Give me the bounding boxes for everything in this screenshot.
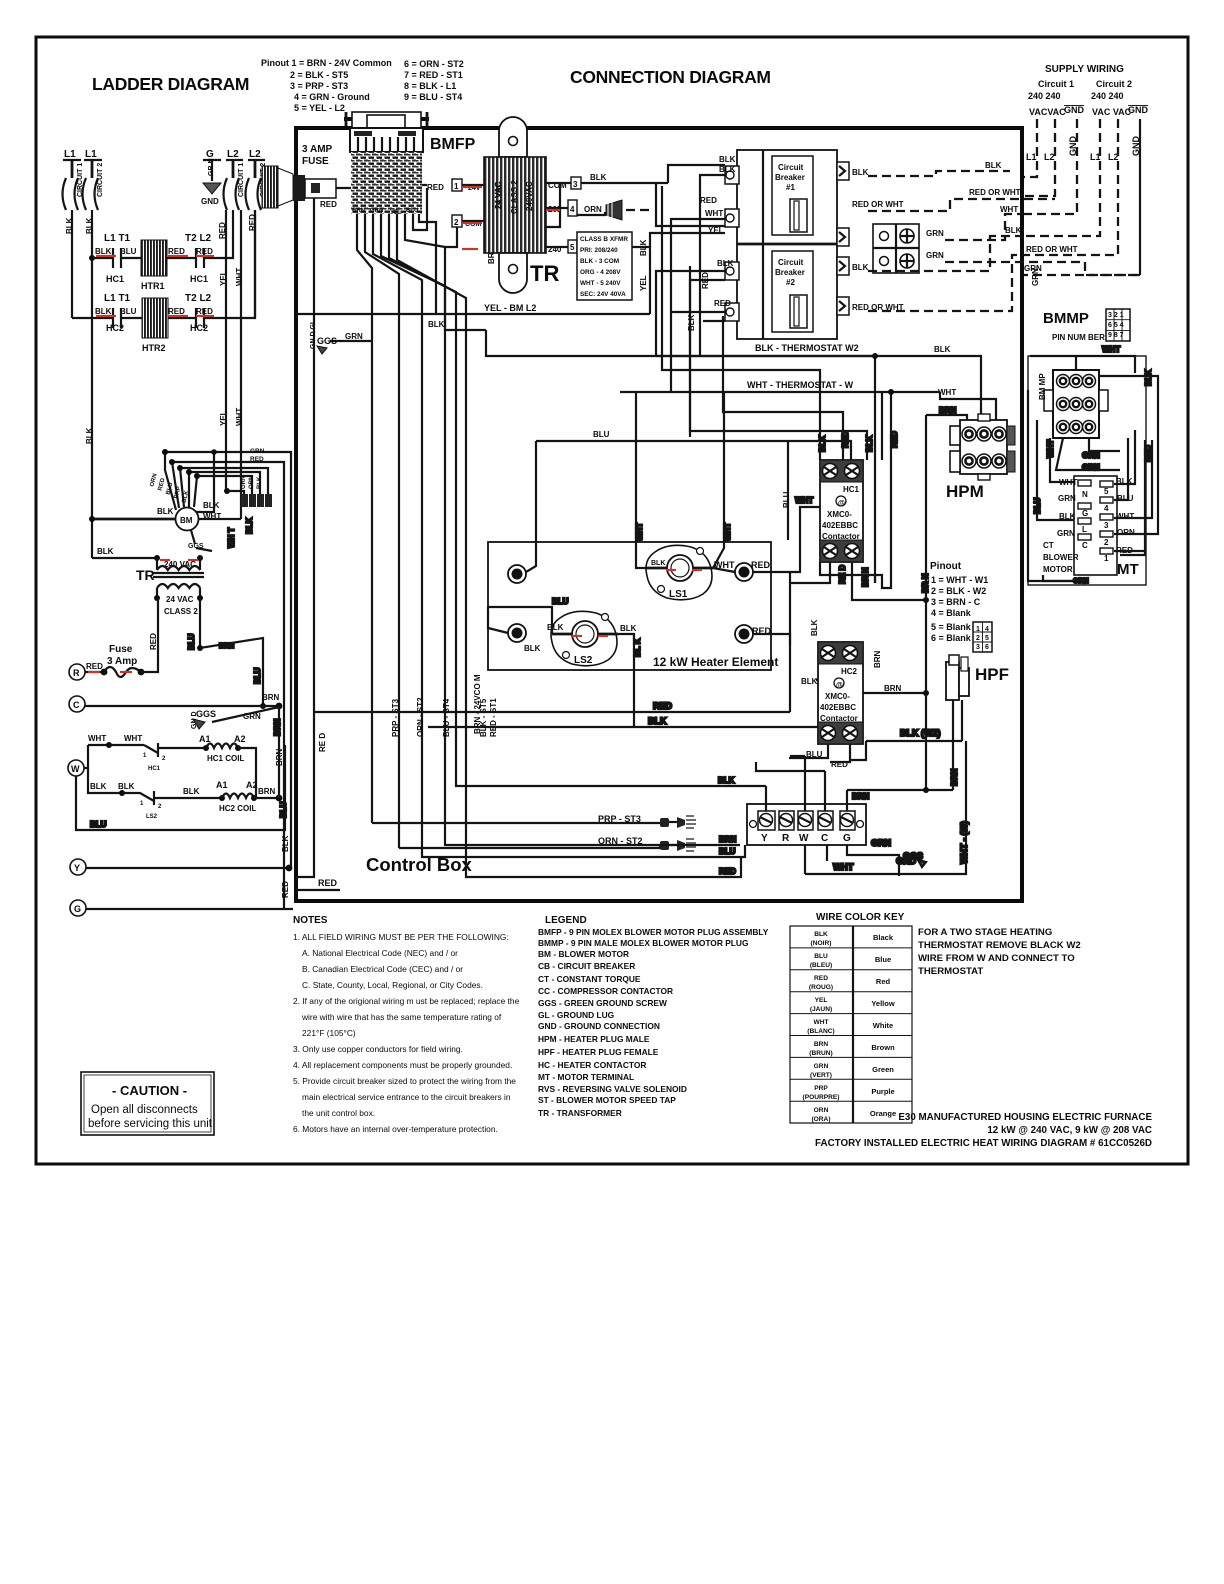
- svg-text:C: C: [821, 833, 828, 844]
- svg-text:BLK: BLK: [281, 835, 290, 852]
- svg-text:BLK: BLK: [620, 624, 637, 633]
- svg-text:HPM: HPM: [946, 482, 984, 501]
- svg-text:YEL: YEL: [815, 997, 828, 1004]
- svg-text:BRN: BRN: [258, 787, 276, 796]
- svg-text:Y: Y: [761, 833, 768, 844]
- svg-text:CC - COMPRESSOR CONTACTOR: CC - COMPRESSOR CONTACTOR: [538, 986, 673, 996]
- breaker CB circuit1 (L1 a): [63, 163, 85, 210]
- svg-text:L1: L1: [1026, 152, 1037, 162]
- circuit breaker #2: [772, 251, 813, 332]
- svg-text:- CAUTION -: - CAUTION -: [112, 1083, 187, 1098]
- svg-text:BRN: BRN: [950, 768, 959, 786]
- dashed: CB1 BLK to supply L1: [852, 161, 1010, 177]
- svg-text:BLK: BLK: [97, 547, 114, 556]
- svg-text:Circuit: Circuit: [778, 258, 804, 267]
- svg-text:WHT: WHT: [235, 408, 244, 426]
- svg-text:RED: RED: [168, 247, 185, 256]
- heater terminal top-right: [735, 560, 771, 581]
- wire BLK to HPM: [656, 356, 981, 414]
- wire L1 drop b: [91, 160, 94, 178]
- svg-text:BR N: BR N: [861, 567, 870, 587]
- svg-text:CLASS 2: CLASS 2: [164, 607, 198, 616]
- svg-text:LS1: LS1: [669, 589, 688, 600]
- svg-text:PRI: 208/240: PRI: 208/240: [580, 247, 618, 254]
- svg-text:L2: L2: [249, 149, 261, 160]
- svg-text:RED: RED: [250, 456, 264, 463]
- contactor HC2: [818, 642, 863, 744]
- svg-text:L1 T1: L1 T1: [104, 233, 131, 244]
- svg-text:BLK: BLK: [547, 623, 564, 632]
- svg-text:Purple: Purple: [871, 1087, 894, 1096]
- svg-text:240 240: 240 240: [1091, 91, 1124, 101]
- motor terminal MT block: [1074, 476, 1139, 578]
- svg-text:BLU: BLU: [1033, 497, 1042, 514]
- svg-text:before servicing this unit: before servicing this unit: [88, 1118, 213, 1130]
- svg-text:GGS: GGS: [196, 709, 216, 719]
- fuse 3 Amp: [69, 598, 158, 680]
- svg-text:C: C: [73, 700, 80, 710]
- svg-text:RED: RED: [168, 307, 185, 316]
- svg-text:RED OR WHT: RED OR WHT: [852, 200, 904, 209]
- svg-text:3: 3: [1104, 521, 1109, 530]
- red scan tick marks: [88, 187, 702, 672]
- svg-text:RED: RED: [714, 299, 731, 308]
- svg-text:(POURPRE): (POURPRE): [803, 1094, 840, 1101]
- svg-text:RED: RED: [890, 431, 899, 448]
- svg-text:BLK: BLK: [157, 507, 174, 516]
- svg-text:YEL - BM L2: YEL - BM L2: [484, 303, 536, 313]
- dashed: lug GRN to GND c1: [926, 214, 1140, 275]
- svg-text:TR - TRANSFORMER: TR - TRANSFORMER: [538, 1108, 622, 1118]
- svg-text:Orange: Orange: [870, 1109, 896, 1118]
- svg-text:BLK: BLK: [865, 435, 874, 452]
- svg-text:CONNECTION DIAGRAM: CONNECTION DIAGRAM: [570, 67, 771, 87]
- svg-text:BLK: BLK: [203, 501, 220, 510]
- svg-text:L1: L1: [85, 149, 97, 160]
- dashed: CB2 BLK to supply c2 L1: [852, 226, 1023, 272]
- svg-text:Y: Y: [74, 863, 80, 873]
- svg-text:SEC: 24V 40VA: SEC: 24V 40VA: [580, 291, 626, 298]
- notes block: [293, 915, 520, 1134]
- svg-text:BLK: BLK: [801, 677, 818, 686]
- svg-text:RED: RED: [427, 183, 444, 192]
- svg-text:CT: CT: [1043, 541, 1054, 550]
- wire WHT (BMMP top): [1030, 345, 1153, 386]
- svg-text:WHT: WHT: [813, 1019, 828, 1026]
- svg-text:Pinout 1 = BRN - 24V Common: Pinout 1 = BRN - 24V Common: [261, 58, 392, 68]
- svg-text:3. Only use copper conductors: 3. Only use copper conductors for field …: [293, 1044, 463, 1054]
- svg-text:GND: GND: [1128, 105, 1149, 115]
- svg-text:4. All replacement components: 4. All replacement components must be pr…: [293, 1060, 512, 1070]
- heater HTR1: [141, 240, 167, 291]
- svg-text:3 Amp: 3 Amp: [107, 656, 137, 667]
- wire YEL - BM L2: [296, 303, 650, 314]
- svg-text:PRP - ST3: PRP - ST3: [391, 698, 400, 737]
- svg-text:ORG - 4 208V: ORG - 4 208V: [580, 269, 621, 276]
- svg-text:TR: TR: [136, 567, 155, 583]
- svg-text:2. If any of the origional wir: 2. If any of the origional wiring m ust …: [293, 996, 520, 1006]
- svg-text:WHT: WHT: [88, 734, 106, 743]
- svg-text:RED OR WHT: RED OR WHT: [969, 188, 1021, 197]
- svg-text:4: 4: [570, 205, 575, 214]
- svg-text:BLK: BLK: [852, 263, 869, 272]
- svg-text:WHT: WHT: [1059, 478, 1077, 487]
- svg-text:BLK: BLK: [814, 931, 828, 938]
- svg-text:BLU: BLU: [187, 633, 196, 650]
- svg-text:BLK: BLK: [245, 517, 254, 534]
- svg-text:XMC0-: XMC0-: [825, 692, 850, 701]
- wires into strip from above: [718, 756, 953, 811]
- svg-text:BM MP: BM MP: [1038, 373, 1047, 400]
- svg-text:WHT - THERMOSTAT - W: WHT - THERMOSTAT - W: [747, 380, 854, 390]
- svg-text:L1 T1: L1 T1: [104, 293, 131, 304]
- BMMP title + pin numbers: [1043, 309, 1130, 342]
- bundle labels (vertical): [391, 674, 498, 737]
- svg-text:BLK: BLK: [852, 168, 869, 177]
- svg-text:BRN: BRN: [262, 693, 280, 702]
- svg-text:YEL: YEL: [639, 275, 648, 291]
- svg-text:#2: #2: [786, 278, 795, 287]
- fuse holder 3AMP: [262, 144, 337, 209]
- BM GGS ground: [188, 530, 212, 551]
- BM tap labels (tiny): [149, 473, 190, 503]
- wires HC1 area verticals down: [820, 562, 891, 588]
- svg-text:WH T: WH T: [227, 527, 236, 548]
- circuit breaker assembly box: [737, 150, 837, 339]
- svg-text:WHT: WHT: [635, 523, 644, 541]
- wires CB down to contactors: [662, 186, 899, 583]
- breaker CB circuit1 (L2): [224, 160, 246, 210]
- node L1 (left pair): [63, 149, 102, 160]
- svg-text:BMFP - 9 PIN MOLEX BLOWER MOTO: BMFP - 9 PIN MOLEX BLOWER MOTOR PLUG ASS…: [538, 927, 769, 937]
- svg-text:3 2 1: 3 2 1: [1108, 312, 1124, 319]
- svg-text:G: G: [74, 904, 81, 914]
- svg-text:BRN: BRN: [719, 835, 737, 844]
- contact HC2 row labels: [95, 293, 213, 333]
- wire WHT drops to LS1: [635, 392, 732, 568]
- svg-text:BLK: BLK: [719, 155, 736, 164]
- contact HC2 right + wire to L2 c2: [168, 210, 255, 328]
- svg-text:BLK: BLK: [648, 716, 667, 726]
- svg-text:NOTES: NOTES: [293, 915, 328, 926]
- supply circuit1 GND wire: [1023, 119, 1077, 214]
- svg-text:BLU: BLU: [406, 208, 418, 214]
- svg-text:BLK: BLK: [818, 435, 827, 452]
- svg-text:RED: RED: [751, 560, 771, 570]
- svg-text:R: R: [73, 668, 80, 678]
- svg-text:L: L: [1082, 525, 1087, 534]
- svg-text:TR: TR: [530, 261, 559, 286]
- svg-text:BLU: BLU: [120, 247, 137, 256]
- svg-text:BLU: BLU: [782, 491, 791, 508]
- svg-text:wire with wire that has the sa: wire with wire that has the same tempera…: [301, 1012, 502, 1022]
- svg-text:VACVAC: VACVAC: [1029, 107, 1066, 117]
- svg-text:HPM - HEATER PLUG MALE: HPM - HEATER PLUG MALE: [538, 1034, 650, 1044]
- svg-text:BLU: BLU: [814, 953, 828, 960]
- svg-text:WIRE FROM W AND CONNECT TO: WIRE FROM W AND CONNECT TO: [918, 953, 1075, 964]
- svg-text:2: 2: [454, 218, 459, 227]
- svg-text:BLOWER: BLOWER: [1043, 553, 1079, 562]
- svg-text:ORN: ORN: [1073, 578, 1089, 585]
- svg-text:402EBBC: 402EBBC: [822, 521, 858, 530]
- heater plug male HPM: [946, 414, 1015, 501]
- CB2 left terminals: [725, 262, 739, 321]
- svg-text:GRN: GRN: [814, 1063, 829, 1070]
- wire RED rail (fuse down): [296, 198, 327, 877]
- svg-text:G: G: [1082, 509, 1088, 518]
- drawing title: [815, 1112, 1152, 1149]
- svg-text:BLK: BLK: [183, 787, 200, 796]
- svg-text:BLK: BLK: [718, 776, 735, 785]
- svg-text:C: C: [1082, 541, 1088, 550]
- BMFP connector: [344, 112, 476, 216]
- svg-text:BLU: BLU: [1117, 494, 1134, 503]
- svg-text:BLK: BLK: [95, 247, 112, 256]
- svg-text:C. State, County, Local, Regi: C. State, County, Local, Regional, or Ci…: [302, 980, 483, 990]
- svg-text:main electrical service entran: main electrical service entrance to the …: [302, 1092, 511, 1102]
- svg-text:B. Canadian Electrical Code (C: B. Canadian Electrical Code (CEC) and / …: [302, 964, 463, 974]
- connector plug PRP-ST3: [372, 814, 696, 828]
- svg-text:(ROUG): (ROUG): [809, 984, 833, 991]
- svg-text:RED: RED: [701, 272, 710, 289]
- svg-text:GRN: GRN: [1082, 463, 1100, 472]
- svg-text:CT - CONSTANT TORQUE: CT - CONSTANT TORQUE: [538, 974, 641, 984]
- terminal W + HC coil circuit: [68, 734, 144, 776]
- svg-text:CIRCUIT 1: CIRCUIT 1: [238, 163, 245, 197]
- pinout list (heater plug): [930, 561, 988, 643]
- svg-text:BLK (W2): BLK (W2): [900, 728, 941, 738]
- contact HC1 (N.O.): [92, 248, 141, 268]
- svg-text:WHT - 5 240V: WHT - 5 240V: [580, 280, 621, 287]
- svg-text:BLK: BLK: [934, 345, 951, 354]
- svg-text:HC1: HC1: [148, 766, 161, 772]
- svg-text:Yellow: Yellow: [871, 999, 895, 1008]
- heater terminal bottom-left: [508, 624, 541, 653]
- svg-text:BM: BM: [180, 516, 193, 525]
- heater terminal top-left: [508, 565, 526, 583]
- svg-text:BLK: BLK: [1005, 226, 1022, 235]
- svg-text:BRN: BRN: [273, 718, 282, 736]
- circuit breaker #1: [772, 156, 813, 235]
- wire BLK long bottom: [428, 716, 850, 744]
- supply wiring header: [1026, 64, 1149, 162]
- svg-text:BLK: BLK: [85, 427, 94, 444]
- heater plug female HPF: [946, 655, 1009, 790]
- svg-text:BLK: BLK: [65, 217, 74, 234]
- ground lug block GL: [873, 224, 919, 273]
- svg-text:RED: RED: [318, 878, 338, 888]
- svg-text:A2: A2: [246, 780, 258, 790]
- svg-text:RED: RED: [719, 867, 736, 876]
- svg-text:240 240: 240 240: [1028, 91, 1061, 101]
- svg-text:BLU - ST4: BLU - ST4: [442, 698, 451, 737]
- svg-text:WHT: WHT: [833, 862, 854, 872]
- svg-text:L2: L2: [227, 149, 239, 160]
- svg-text:5: 5: [570, 243, 575, 252]
- svg-text:BLK: BLK: [687, 314, 696, 331]
- svg-text:4: 4: [1104, 504, 1109, 513]
- svg-text:GRN: GRN: [926, 251, 944, 260]
- svg-text:HC1: HC1: [106, 274, 124, 284]
- svg-text:6 = Blank: 6 = Blank: [931, 633, 972, 643]
- limit switch LS1: [646, 545, 735, 600]
- svg-text:SUPPLY WIRING: SUPPLY WIRING: [1045, 64, 1124, 75]
- MT side labels: [1057, 477, 1135, 555]
- svg-text:1: 1: [454, 182, 459, 191]
- svg-text:XMC0-: XMC0-: [827, 510, 852, 519]
- breaker CB circuit2 (L2): [246, 160, 268, 210]
- svg-text:HC1: HC1: [190, 274, 208, 284]
- svg-text:5: 5: [1104, 487, 1109, 496]
- svg-text:BLK: BLK: [428, 320, 445, 329]
- svg-text:WHT: WHT: [1000, 205, 1018, 214]
- svg-text:HC1 COIL: HC1 COIL: [207, 754, 244, 763]
- svg-text:BMMP - 9 PIN MALE MOLEX BLOWER: BMMP - 9 PIN MALE MOLEX BLOWER MOTOR PLU…: [538, 938, 748, 948]
- svg-text:RED: RED: [218, 222, 227, 239]
- svg-text:3: 3: [573, 180, 578, 189]
- contact HC1 aux + coil HC1: [143, 734, 284, 798]
- wire color key table: [790, 912, 912, 1123]
- TR class info box: [577, 232, 648, 300]
- caution box: [81, 1072, 214, 1135]
- connector plug ORN-ST2: [399, 836, 696, 851]
- svg-text:LEGEND: LEGEND: [545, 915, 587, 926]
- svg-text:RVS - REVERSING VALVE SOLENOID: RVS - REVERSING VALVE SOLENOID: [538, 1084, 687, 1094]
- wire BLK rail a: [65, 210, 74, 318]
- dashed: CB1 RED OR WHT to supply: [852, 188, 1055, 214]
- svg-text:GRN: GRN: [1057, 529, 1075, 538]
- contact HC1 right + wire to L2: [167, 210, 233, 268]
- svg-text:GRN: GRN: [370, 208, 383, 214]
- svg-text:RED: RED: [841, 431, 850, 448]
- svg-text:2 = BLK - W2: 2 = BLK - W2: [931, 586, 986, 596]
- svg-text:3 AMP: 3 AMP: [302, 144, 333, 155]
- svg-text:RED: RED: [320, 200, 337, 209]
- svg-text:2: 2: [976, 635, 980, 642]
- svg-text:Circuit: Circuit: [778, 163, 804, 172]
- svg-text:BM - BLOWER MOTOR: BM - BLOWER MOTOR: [538, 949, 629, 959]
- wire GRN (GGS to bundle): [310, 319, 372, 354]
- TR right terminal 3 COM: [546, 173, 668, 190]
- contact LS2 aux + coil HC2: [88, 768, 282, 820]
- svg-text:GRN: GRN: [871, 838, 891, 848]
- wires below strip BRN/BLU/RED: [422, 774, 745, 877]
- svg-text:YEL: YEL: [219, 410, 228, 426]
- svg-text:(NOIR): (NOIR): [811, 940, 832, 947]
- svg-text:the unit control box.: the unit control box.: [302, 1108, 375, 1118]
- svg-text:BR N: BR N: [921, 573, 930, 593]
- svg-text:3 = BRN - C: 3 = BRN - C: [931, 597, 981, 607]
- svg-text:Circuit 1: Circuit 1: [1038, 79, 1074, 89]
- svg-text:LS2: LS2: [146, 814, 158, 820]
- supply circuit2 L1 wire: [1023, 119, 1100, 236]
- svg-text:WHT - (W): WHT - (W): [959, 821, 969, 864]
- svg-text:BLK: BLK: [85, 217, 94, 234]
- BM tap plug terminals: [241, 448, 272, 507]
- svg-text:Brown: Brown: [871, 1043, 895, 1052]
- TR right terminal 5 240: [546, 183, 650, 314]
- svg-text:L1: L1: [64, 149, 76, 160]
- TR right terminal 4 208 ORN: [546, 200, 650, 220]
- BM speed tap fan wires: [162, 449, 291, 909]
- wire BLU into LS2: [488, 597, 569, 634]
- svg-text:6 5 4: 6 5 4: [1108, 322, 1124, 329]
- svg-text:BLK: BLK: [257, 476, 263, 489]
- wire bundle verticals: [357, 188, 766, 848]
- svg-text:GRN: GRN: [1031, 268, 1040, 286]
- svg-text:BLK: BLK: [719, 165, 736, 174]
- svg-text:FUSE: FUSE: [302, 156, 329, 167]
- svg-text:ORN: ORN: [1117, 528, 1135, 537]
- svg-text:BLU: BLU: [719, 847, 736, 856]
- terminal C: [69, 693, 282, 712]
- svg-text:3 = PRP - ST3: 3 = PRP - ST3: [290, 81, 348, 91]
- svg-text:Open all disconnects: Open all disconnects: [91, 1104, 198, 1116]
- svg-text:E30 MANUFACTURED HOUSING ELECT: E30 MANUFACTURED HOUSING ELECTRIC FURNAC…: [898, 1112, 1152, 1123]
- svg-text:BLK: BLK: [1059, 512, 1076, 521]
- svg-text:A2: A2: [234, 734, 246, 744]
- svg-text:RED: RED: [281, 881, 290, 898]
- svg-text:CB - CIRCUIT BREAKER: CB - CIRCUIT BREAKER: [538, 961, 635, 971]
- svg-text:RED: RED: [653, 701, 673, 711]
- svg-text:BRN: BRN: [884, 684, 902, 693]
- svg-text:BLK: BLK: [524, 644, 541, 653]
- wire BRN rail (C to coils): [273, 706, 282, 798]
- wire WHT to HPM: [940, 392, 996, 420]
- CB right terminals: [837, 162, 849, 315]
- svg-text:BRN: BRN: [219, 643, 234, 650]
- svg-text:#1: #1: [786, 183, 795, 192]
- svg-text:5 = Blank: 5 = Blank: [931, 622, 972, 632]
- svg-text:BRN: BRN: [939, 406, 957, 415]
- svg-text:Red: Red: [876, 977, 891, 986]
- svg-text:221°F (105°C): 221°F (105°C): [302, 1028, 356, 1038]
- svg-text:2 = BLK - ST5: 2 = BLK - ST5: [290, 70, 348, 80]
- HC2 surround labels: [789, 619, 929, 769]
- svg-text:BLK: BLK: [717, 259, 734, 268]
- heater terminal bottom-right: [735, 625, 772, 643]
- svg-text:1: 1: [976, 626, 980, 633]
- svg-text:WIRE COLOR KEY: WIRE COLOR KEY: [816, 912, 905, 923]
- ground GGS (ladder, with GRN wire): [191, 707, 279, 729]
- svg-text:BLK: BLK: [95, 307, 112, 316]
- svg-text:MOTOR: MOTOR: [1043, 565, 1073, 574]
- svg-text:6: 6: [985, 644, 989, 651]
- svg-text:HPF - HEATER PLUG FEMALE: HPF - HEATER PLUG FEMALE: [538, 1047, 659, 1057]
- svg-text:RE D: RE D: [318, 733, 327, 752]
- wire LS2 right BLK down: [618, 634, 642, 727]
- svg-text:WHT: WHT: [235, 268, 244, 286]
- svg-text:VAC VAC: VAC VAC: [1092, 107, 1132, 117]
- wire WHT rail: [235, 210, 244, 519]
- svg-text:G: G: [206, 149, 214, 160]
- svg-text:BRN: BRN: [852, 792, 870, 801]
- wire TR sec right BLU/BRN: [187, 598, 266, 709]
- svg-text:N: N: [1082, 490, 1088, 499]
- wire BLK (TR com down): [428, 247, 486, 330]
- svg-text:240VAC: 240VAC: [525, 181, 534, 211]
- svg-text:THERMOSTAT REMOVE BLACK W2: THERMOSTAT REMOVE BLACK W2: [918, 940, 1081, 951]
- svg-text:BLU: BLU: [593, 430, 610, 439]
- svg-text:(JAUN): (JAUN): [810, 1006, 832, 1013]
- svg-text:3: 3: [976, 644, 980, 651]
- svg-text:1 = WHT - W1: 1 = WHT - W1: [931, 575, 988, 585]
- svg-text:GRN: GRN: [345, 332, 363, 341]
- svg-text:GN D GL: GN D GL: [310, 319, 317, 349]
- svg-text:Fuse: Fuse: [109, 644, 133, 655]
- BMMP routing wires: [1028, 355, 1153, 581]
- svg-text:ORN: ORN: [814, 1107, 829, 1114]
